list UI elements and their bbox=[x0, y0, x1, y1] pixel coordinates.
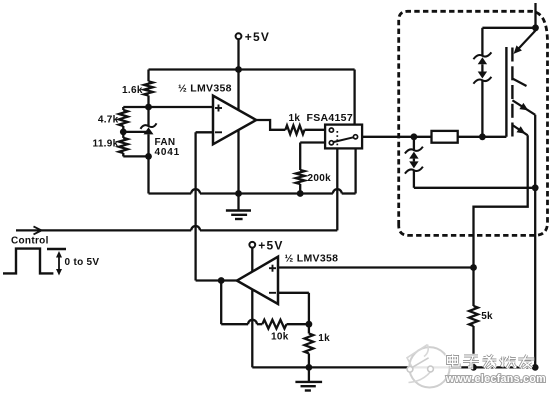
wire op-amp U1 output bbox=[256, 120, 285, 130]
node lower zener top bbox=[411, 133, 418, 140]
wire control line arrowhead bbox=[34, 226, 42, 230]
wire op-amp U1 V- pin bbox=[237, 130, 239, 194]
zener pair D1/D2 (gate clamp) bbox=[473, 52, 491, 59]
transistor Q2 source connection with arrow bbox=[512, 125, 527, 135]
svg-text:+5V: +5V bbox=[258, 238, 283, 252]
transistor Q1/Q2 channel (dashed bar) bbox=[511, 48, 513, 62]
svg-text:FSA4157: FSA4157 bbox=[307, 112, 353, 124]
resistor R 1k (U1 output) bbox=[285, 125, 304, 134]
svg-text:4.7k: 4.7k bbox=[98, 115, 119, 126]
resistor R gate (box symbol) bbox=[432, 131, 458, 143]
wire gate resistor to gate node bbox=[458, 136, 507, 138]
node 5k / bottom rail bbox=[470, 364, 477, 371]
node junction +5V rail / op-amp U1 V+ bbox=[235, 66, 242, 73]
ground symbol (op-amp U1) bbox=[237, 194, 239, 211]
resistor R 5k bbox=[472, 268, 474, 307]
wire divider tap to FAN4041 bbox=[123, 131, 148, 133]
resistor R 4.7k bbox=[122, 107, 124, 110]
wire node A to op-amp U1 + input bbox=[123, 106, 213, 108]
wire op-amp U2 + input bbox=[278, 266, 474, 268]
node top drain bbox=[532, 24, 539, 31]
wire op-amp U2 output to node bbox=[196, 279, 237, 281]
svg-text:1k: 1k bbox=[289, 113, 301, 124]
wire FSA4157 GND pin bbox=[354, 148, 356, 193]
svg-text:½ LMV358: ½ LMV358 bbox=[178, 82, 232, 94]
power +5V terminal (top) bbox=[236, 33, 242, 39]
node op-amp U2 + input / 5k top bbox=[470, 264, 477, 271]
wire top +5V rail bbox=[149, 68, 355, 70]
node FAN4041 anode bbox=[145, 153, 152, 160]
wire FAN4041 anode down to ground rail bbox=[147, 156, 149, 193]
resistor R 10k bbox=[262, 320, 286, 329]
resistor R 11.9k bbox=[122, 132, 124, 138]
node op-amp U2 output bbox=[218, 277, 225, 284]
wire op-amp U1 V+ pin bbox=[237, 70, 239, 111]
node Q2 drain / source junction bbox=[532, 184, 539, 191]
zener pair D3/D4 (gate-source clamp) bbox=[413, 137, 415, 150]
op-amp U2 1/2 LMV358 bbox=[237, 257, 278, 304]
svg-text:www.elecfans.com: www.elecfans.com bbox=[445, 373, 546, 385]
wire op-amp U2 V- pin bbox=[251, 289, 253, 367]
node 1k / bottom rail bbox=[306, 364, 313, 371]
svg-text:1.6k: 1.6k bbox=[122, 85, 143, 96]
node 200k / ground rail bbox=[297, 190, 304, 197]
wire top node to upper zener bbox=[482, 27, 535, 29]
resistor R 1k (feedback) bbox=[308, 324, 310, 333]
node divider tap 4.7k/11.9k bbox=[120, 129, 127, 136]
ground symbol (bottom) bbox=[308, 367, 310, 381]
transistor Q1 drain stub bbox=[512, 79, 526, 87]
svg-text:4041: 4041 bbox=[155, 147, 180, 158]
svg-text:11.9k: 11.9k bbox=[93, 138, 119, 149]
node 10k/1k feedback junction bbox=[306, 321, 313, 328]
wire bottom rail bbox=[252, 366, 535, 368]
svg-text:10k: 10k bbox=[271, 331, 289, 342]
transistor Q1 MOSFET gate bar bbox=[505, 47, 507, 137]
wire analog ground rail bbox=[149, 192, 192, 194]
wire FSA4157 select pin / control line bbox=[16, 229, 191, 231]
svg-text:5k: 5k bbox=[481, 311, 493, 322]
wire source node down to bottom rail bbox=[534, 188, 536, 368]
node ground rail / op-amp U1 V- bbox=[235, 190, 242, 197]
wire 11.9k bottom to FAN4041 anode bbox=[123, 155, 148, 157]
wire feedback via 10k bbox=[220, 281, 222, 325]
node bottom rail right end bbox=[532, 364, 539, 371]
diode FAN4041 shunt reference bbox=[147, 107, 149, 126]
control pulse waveform bbox=[3, 249, 53, 274]
resistor R 1.6k bbox=[147, 70, 149, 82]
wire FSA4157 output into box bbox=[362, 136, 431, 138]
dashed enclosure box bbox=[399, 11, 548, 235]
svg-text:0 to 5V: 0 to 5V bbox=[65, 257, 100, 268]
node A reference node bbox=[145, 104, 152, 111]
watermark logo circle bbox=[409, 347, 449, 387]
resistor R 200k bbox=[299, 143, 301, 171]
watermark text 电子发烧友 (drawn strokes) bbox=[448, 355, 460, 367]
transistor Q1 source connection with arrow bbox=[517, 31, 536, 51]
svg-text:Control: Control bbox=[11, 236, 49, 247]
wire op-amp U1 - input feedback (down to U2 output) bbox=[196, 131, 213, 133]
node upper zener bottom / gate bbox=[479, 133, 486, 140]
svg-text:1k: 1k bbox=[318, 333, 330, 344]
analog switch U3 FSA4157 bbox=[325, 125, 362, 149]
wire FSA4157 NC port to 200k bbox=[300, 141, 325, 143]
wire external supply feed (top) bbox=[534, 3, 536, 28]
svg-text:½ LMV358: ½ LMV358 bbox=[285, 253, 339, 265]
power +5V terminal (op-amp U2) bbox=[249, 242, 255, 248]
pulse amplitude double arrow bbox=[58, 255, 60, 273]
wire FSA4157 V+ supply pin bbox=[353, 70, 355, 125]
transistor Q2 drain connection with arrow bbox=[512, 100, 535, 115]
wire op-amp U2 - input to feedback node bbox=[278, 292, 309, 294]
wire lower zener to source node bbox=[414, 187, 535, 189]
op-amp U1 1/2 LMV358 bbox=[213, 96, 256, 145]
svg-text:200k: 200k bbox=[308, 173, 332, 184]
pulse 5V reference line bbox=[47, 248, 66, 250]
svg-text:+5V: +5V bbox=[245, 30, 270, 44]
